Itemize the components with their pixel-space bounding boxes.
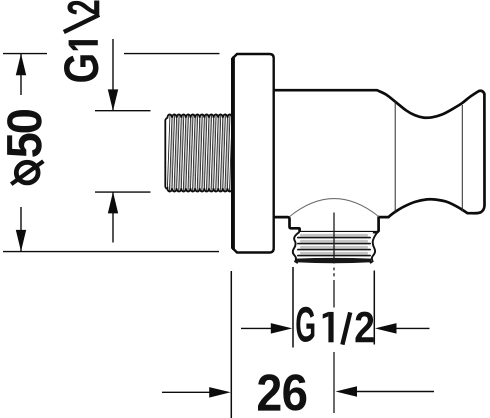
dimension G1/2 left: arrow up [108,192,118,214]
wall flange (escutcheon, ø50) [232,54,274,253]
dimension 26: arrow left [336,386,435,397]
dimension ø50: arrow down [16,230,26,252]
label ø50 (rotated) [7,110,43,184]
label G1/2 (bottom) [296,307,373,345]
holder waist contour line right [461,105,463,212]
body with hand-shower holder outline [274,90,485,232]
dimension 26: extension line at flange face [230,271,232,418]
dimension G1/2 bottom: arrow left [375,323,430,334]
label G1/2 (rotated) [64,1,100,82]
dimension G1/2 left: arrow down [108,89,118,111]
holder waist contour line left [394,102,396,213]
inlet pipe male thread G1/2 (left) [165,110,239,196]
dimension G1/2 bottom: arrow right [241,323,292,334]
dimension G1/2 left: extension and leader lines [95,39,151,243]
dimension ø50: extension lines [3,54,220,252]
dimension G1/2 bottom: extension lines [293,267,374,348]
vertical centerline of outlet [333,213,335,414]
outlet male thread G1/2 (bottom) [293,232,378,263]
dimension 26: arrow right [162,387,231,398]
body underside arc (thin) [290,199,379,217]
label 26 [258,374,306,410]
dimension ø50: arrow up [16,54,26,76]
